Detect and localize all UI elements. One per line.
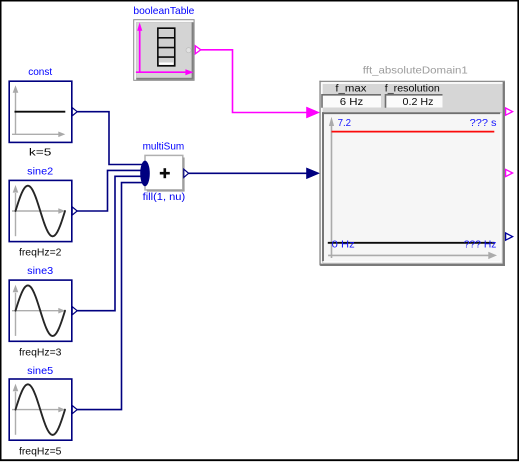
fft black line bbox=[328, 242, 495, 244]
booleanTable x-axis (magenta) bbox=[136, 69, 194, 75]
fft red line bbox=[332, 131, 495, 133]
fft plot y-axis bbox=[329, 117, 334, 258]
fft input trigger (magenta filled arrow) bbox=[306, 107, 320, 118]
svg-text:7.2: 7.2 bbox=[338, 117, 352, 129]
wire sine5.y to multiSum.u[4] bbox=[77, 183, 142, 410]
svg-text:??? Hz: ??? Hz bbox=[464, 238, 497, 250]
svg-text:f_max: f_max bbox=[335, 82, 367, 94]
multiSum input ellipse bbox=[140, 161, 150, 187]
fft output 3 (blue) bbox=[506, 233, 513, 240]
block booleanTable bbox=[133, 19, 194, 81]
wire sine2.y to multiSum.u[2] bbox=[77, 170, 142, 211]
svg-text:??? s: ??? s bbox=[470, 117, 497, 129]
svg-text:sine2: sine2 bbox=[27, 165, 53, 177]
block multiSum bbox=[145, 155, 185, 191]
booleanTable table icon bbox=[158, 28, 175, 66]
wire booleanTable.y to fft.trigger bbox=[201, 50, 320, 118]
svg-text:booleanTable: booleanTable bbox=[133, 5, 194, 17]
wire const.y to multiSum.u[1] bbox=[77, 112, 142, 165]
svg-text:multiSum: multiSum bbox=[143, 140, 185, 152]
booleanTable grey dot bbox=[186, 48, 191, 53]
block sine5 bbox=[9, 379, 77, 440]
wire multiSum.y to fft.u bbox=[189, 168, 320, 179]
svg-text:fill(1, nu): fill(1, nu) bbox=[143, 191, 186, 203]
svg-text:fft_absoluteDomain1: fft_absoluteDomain1 bbox=[363, 64, 468, 76]
block const bbox=[9, 81, 72, 142]
svg-text:0 Hz: 0 Hz bbox=[332, 238, 355, 250]
multiSum plus sign bbox=[160, 168, 170, 178]
svg-text:freqHz=2: freqHz=2 bbox=[19, 247, 62, 259]
svg-text:k=5: k=5 bbox=[29, 147, 52, 159]
svg-text:sine3: sine3 bbox=[27, 265, 53, 277]
fft plot x-axis bbox=[328, 252, 497, 259]
const output connector bbox=[72, 108, 77, 116]
block sine2 bbox=[9, 180, 77, 241]
block sine3 bbox=[9, 280, 77, 341]
fft output 2 (magenta) bbox=[506, 169, 513, 176]
svg-text:0.2 Hz: 0.2 Hz bbox=[403, 96, 434, 108]
fft plot area bbox=[322, 112, 502, 262]
svg-text:sine5: sine5 bbox=[27, 365, 53, 377]
svg-text:f_resolution: f_resolution bbox=[385, 82, 440, 94]
fft f_resolution value box bbox=[386, 94, 443, 108]
svg-text:freqHz=5: freqHz=5 bbox=[19, 445, 62, 457]
wire sine3.y to multiSum.u[3] bbox=[77, 176, 142, 310]
booleanTable y-axis (magenta) bbox=[137, 22, 142, 72]
multiSum output connector bbox=[184, 169, 189, 177]
svg-text:const: const bbox=[28, 66, 52, 78]
booleanTable output connector bbox=[195, 46, 201, 54]
fft input u (navy filled arrow) bbox=[306, 168, 320, 179]
fft f_max value box bbox=[322, 94, 381, 108]
block fft_absoluteDomain1 bbox=[319, 81, 505, 266]
svg-text:6 Hz: 6 Hz bbox=[340, 96, 364, 108]
fft output 1 (magenta) bbox=[506, 108, 513, 115]
svg-text:freqHz=3: freqHz=3 bbox=[19, 347, 62, 359]
